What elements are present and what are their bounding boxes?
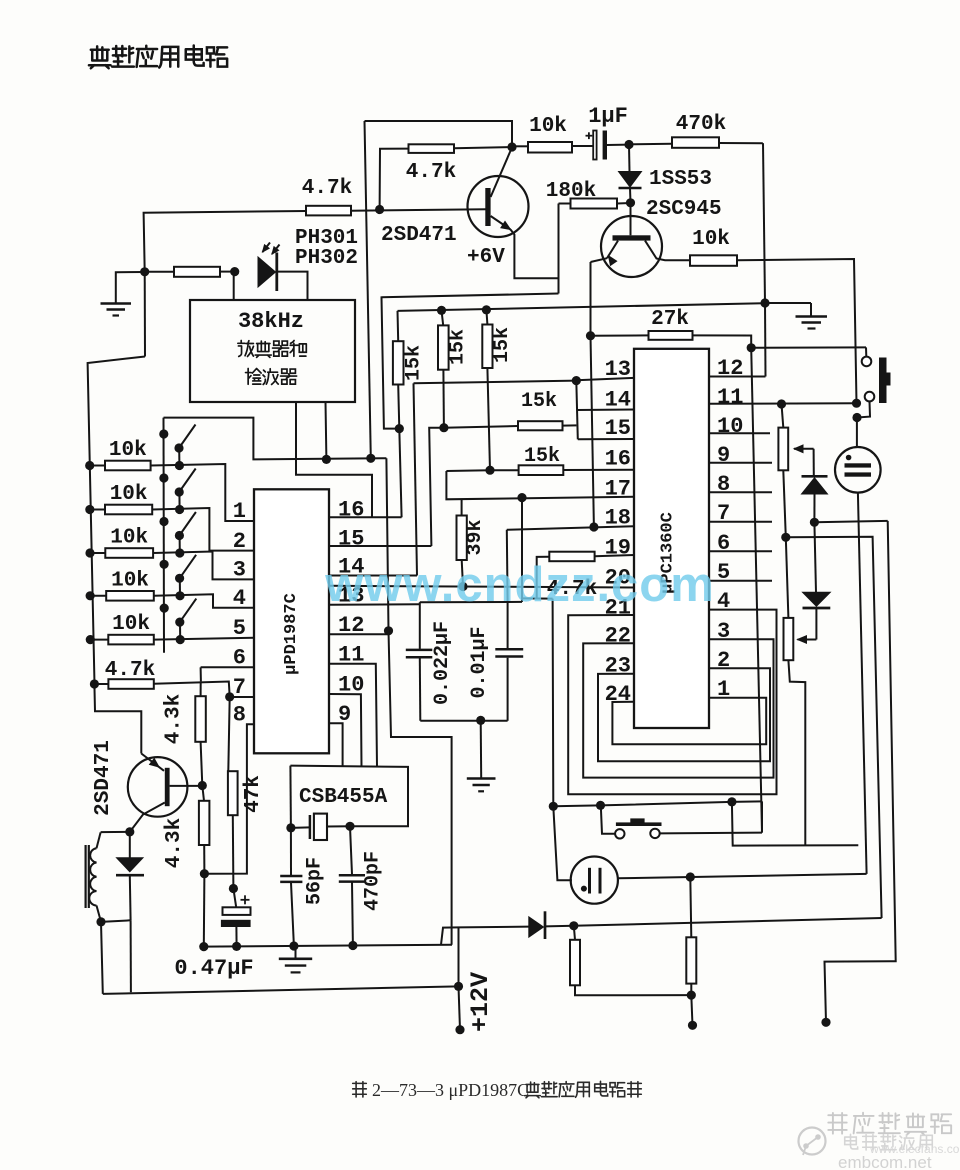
node cap box bottom	[476, 716, 485, 725]
wire pin15 stub uPD	[329, 545, 431, 547]
IC U2 uPC1360C	[634, 349, 709, 728]
node crystal right	[345, 822, 354, 831]
coil (transducer)	[84, 845, 86, 908]
diode (flyback)	[129, 832, 131, 858]
node key row 3 left	[85, 548, 94, 557]
svg-text:0.01μF: 0.01μF	[468, 626, 491, 698]
svg-text:2: 2	[233, 529, 246, 554]
svg-text:56pF: 56pF	[304, 857, 327, 905]
resistor 10k (top)	[528, 142, 572, 153]
svg-text:10k: 10k	[112, 613, 150, 636]
svg-text:3: 3	[233, 558, 246, 583]
diode (+12V supply)	[529, 917, 544, 937]
wire pin7 stub uPC	[709, 521, 772, 523]
wire cap box top edge	[420, 601, 522, 603]
svg-text:3: 3	[717, 619, 730, 644]
node 38kHz out2 / key wire	[322, 455, 331, 464]
wire bottom link	[553, 801, 762, 806]
pushbutton SW2	[601, 805, 615, 833]
node right hook branch	[727, 797, 736, 806]
node key row 4 contact	[175, 591, 184, 600]
svg-text:17: 17	[605, 477, 631, 502]
wire 470k vertical to pin12	[764, 303, 767, 377]
svg-text:470k: 470k	[676, 113, 726, 136]
wire pin15 stub uPC	[578, 438, 634, 440]
wire key row 2 to uPD pin 2	[152, 508, 254, 551]
wire +12V riser	[458, 927, 460, 986]
wire +6V to pin16 branch	[382, 294, 559, 429]
node crystal left	[286, 823, 295, 832]
trimmer resistor (upper right)	[782, 404, 784, 428]
wire diode bottom to bottom rail	[130, 920, 132, 992]
wire key row 3 to uPD pin 3	[153, 552, 254, 580]
diode 1SS53	[628, 145, 631, 172]
capacitor C 0.47uF electrolytic	[241, 899, 250, 901]
node 1uF/470k/1SS53	[624, 140, 633, 149]
wire left supply bus	[88, 357, 145, 685]
wire base Q1	[351, 209, 487, 211]
svg-text:14: 14	[605, 387, 631, 412]
node 39k/pin20 wire	[458, 582, 467, 591]
crystal element	[309, 815, 312, 839]
svg-text:embcom.net: embcom.net	[838, 1153, 932, 1170]
svg-text:15k: 15k	[447, 329, 470, 365]
node end stub right	[821, 1018, 830, 1027]
svg-text:18: 18	[605, 505, 631, 530]
wire bus 27k-left down to pin18	[591, 336, 594, 527]
wire +12V stub down	[459, 986, 461, 1029]
key switch S4	[160, 560, 169, 569]
wire 4.7k row to pins 6/7	[154, 682, 230, 697]
wire 470k right lead	[719, 142, 763, 144]
svg-text:16: 16	[605, 447, 631, 472]
wire 4.7k lead down	[380, 149, 409, 210]
node 470pF rail	[348, 941, 357, 950]
svg-text:38kHz: 38kHz	[238, 309, 304, 334]
svg-text:10k: 10k	[692, 228, 730, 251]
resonator X1 CSB455A box	[290, 766, 408, 827]
node pin11/10k	[852, 399, 861, 408]
svg-text:1SS53: 1SS53	[649, 168, 712, 191]
wire pin18 stub uPC	[507, 526, 634, 530]
node emitter/diode	[125, 827, 134, 836]
38kHz amplifier/detector block	[190, 300, 355, 402]
svg-text:1: 1	[233, 499, 246, 524]
node end stub (bias)	[688, 1021, 697, 1030]
wire right branch down to bottom left hook	[825, 521, 896, 1022]
svg-text:15: 15	[338, 527, 364, 552]
svg-text:10k: 10k	[110, 527, 148, 550]
node rail left	[199, 942, 208, 951]
wire Q2 emitter	[130, 803, 165, 832]
svg-text:27k: 27k	[651, 308, 689, 331]
node pin16 branch	[395, 424, 404, 433]
svg-text:13: 13	[605, 357, 631, 382]
svg-text:10k: 10k	[111, 569, 149, 592]
wire 38kHz out1 to pin16 uPD	[296, 402, 372, 517]
wire pin13 stub uPD to cap box corner	[329, 603, 420, 606]
resistor (bias right)	[686, 937, 696, 983]
wire 27k right lead	[693, 335, 752, 347]
node 47k / 0.47uF	[229, 884, 238, 893]
wire Q2 base to 4.3k node	[170, 785, 203, 787]
svg-text:1μF: 1μF	[588, 104, 628, 129]
svg-text:6: 6	[233, 645, 246, 670]
wire pin6 stub uPD	[201, 666, 254, 668]
node pin7 uPD	[225, 692, 234, 701]
wire PH anode to 38kHz block	[233, 272, 235, 300]
svg-text:15k: 15k	[521, 390, 557, 413]
node key row 5 left	[86, 635, 95, 644]
svg-text:15k: 15k	[491, 327, 514, 363]
wire pin16 stub uPC	[563, 469, 634, 471]
svg-text:2—73—3 μPD1987C: 2—73—3 μPD1987C	[372, 1080, 529, 1100]
wire vertical to pin15 uPC	[576, 381, 578, 440]
node end stub (+12V)	[455, 1025, 464, 1034]
node trimmer mid	[781, 533, 790, 542]
resistor 470k	[672, 137, 719, 148]
svg-text:5: 5	[233, 616, 246, 641]
wire pin13 stub uPC	[576, 378, 634, 380]
key switch S3	[159, 517, 168, 526]
wire pin13/14 uPC horizontal	[414, 381, 577, 384]
wire key row 4 to uPD pin 4	[154, 594, 254, 608]
wire pin17 uPC / 39k top	[446, 469, 490, 472]
svg-text:16: 16	[338, 498, 364, 523]
wire pin6 stub uPC	[709, 550, 772, 552]
svg-text:+12V: +12V	[466, 972, 495, 1032]
wire pin24 uPC to pin1 wrap	[612, 698, 766, 745]
node key row 5 contact	[176, 635, 185, 644]
wire 10k to C 1uF	[572, 145, 593, 147]
svg-text:10k: 10k	[110, 483, 148, 506]
wire ground rail bottom	[204, 945, 452, 947]
wire 27k node to switch SW1	[751, 346, 866, 348]
wire pin23 uPC to pin2 wrap	[598, 668, 770, 761]
wire node to mic branch	[786, 537, 882, 918]
svg-text:7: 7	[233, 675, 246, 700]
wire Q3 collector to 10k	[645, 241, 690, 261]
node key row 2 left	[85, 505, 94, 514]
node +12V riser	[454, 982, 463, 991]
svg-text:11: 11	[717, 385, 743, 410]
key switch S1	[159, 429, 168, 438]
wire pin8 stub uPC	[709, 491, 772, 493]
node left bus bottom	[549, 802, 558, 811]
wire pin21 uPC to pin4 wrap	[568, 610, 776, 795]
node key row 4 left	[86, 591, 95, 600]
wire top rail left vertical	[365, 121, 371, 458]
wire Q2 collector from 4.7k node	[94, 684, 141, 754]
wire emitter node to coil	[101, 831, 130, 833]
svg-text:2SD471: 2SD471	[381, 224, 457, 247]
node pin13 uPC	[572, 376, 581, 385]
node 1SS53/180k/base Q3	[626, 198, 635, 207]
svg-text:www.cndzz.com: www.cndzz.com	[324, 558, 715, 612]
wire node to 470k	[629, 143, 672, 146]
svg-text:10: 10	[717, 414, 743, 439]
wire cap box bottom edge	[420, 720, 507, 722]
resistor (bias left)	[574, 926, 575, 940]
svg-text:15k: 15k	[403, 345, 426, 381]
wire rail jog to +12V line	[441, 927, 459, 944]
wire bus down right of uPC1360C to SW2	[751, 348, 762, 833]
wire pin14 stub uPD	[329, 575, 417, 577]
wire Q1 emitter +6V rail	[511, 230, 559, 279]
node PH input left	[140, 267, 149, 276]
svg-text:4.3k: 4.3k	[163, 694, 186, 744]
wire pin11 stub uPC long	[709, 402, 857, 405]
node PH anode	[230, 267, 239, 276]
node 4.3k mid	[198, 781, 207, 790]
wire SW2 right riser	[761, 801, 763, 832]
node 15k B / 15k D	[439, 423, 448, 432]
wire 4.7k left lead	[144, 211, 306, 272]
svg-text:4.7k: 4.7k	[302, 177, 352, 200]
wire key row 5 to uPD pin 5	[154, 638, 254, 640]
key switch S2	[159, 473, 168, 482]
wire pin13 uPC link	[414, 383, 418, 575]
wire left vertical to bottom horizontal	[101, 922, 103, 994]
wire mic out	[618, 874, 867, 878]
wire to supply diode	[459, 926, 529, 929]
pushbutton SW1	[865, 347, 867, 356]
node pin17/cap box	[517, 493, 526, 502]
wire 4.3k node down to rail	[203, 874, 206, 947]
svg-text:4: 4	[233, 586, 246, 611]
wire electrolytic bottom to mic wire	[858, 493, 867, 874]
svg-text:1: 1	[717, 677, 730, 702]
title 典型应用电路	[89, 46, 111, 68]
wire trimmer lower bottom	[788, 660, 805, 845]
svg-text:μPD1987C: μPD1987C	[282, 593, 301, 675]
wire pin12 stub uPD	[329, 633, 389, 635]
wire 38kHz out2	[325, 402, 328, 459]
wire 15k A bottom to pin16 node	[398, 385, 399, 429]
ground (bottom rail)	[295, 946, 297, 958]
wire 15k C bottom	[487, 368, 490, 470]
trimmer resistor (lower right)	[786, 537, 789, 618]
svg-text:2SD471: 2SD471	[92, 740, 115, 816]
svg-text:2SC945: 2SC945	[646, 198, 722, 221]
ground (below cap box)	[480, 720, 483, 778]
svg-text:8: 8	[233, 703, 246, 728]
node 4.3k bottom / pin8 wire	[200, 869, 209, 878]
node collector 2SD471/10k	[507, 142, 516, 151]
wire 4.7k mid to pin19 uPC	[595, 555, 634, 556]
wire pin5 stub uPC	[709, 580, 772, 582]
node 4.7k row left	[90, 679, 99, 688]
node 56pF rail	[289, 941, 298, 950]
svg-text:10k: 10k	[529, 115, 567, 138]
node +12V junction	[569, 921, 578, 930]
svg-text:15: 15	[605, 416, 631, 441]
wire link to caps corner	[522, 597, 553, 599]
photodiode PH301/PH302	[258, 257, 276, 287]
key switch S5	[160, 604, 169, 613]
node 15k C / 15k E	[485, 466, 494, 475]
wire key bus vertical	[163, 418, 166, 653]
wire 4.7k to collector node	[454, 147, 512, 148]
node pin11/trimmer	[777, 399, 786, 408]
wire 10k down to pin11 node	[737, 259, 857, 403]
wire branch up to pin 6	[200, 667, 202, 681]
wire 1uF to node	[607, 144, 629, 146]
wire pin11 stub uPD to CSB455A	[329, 664, 377, 767]
wire 47k bottom	[232, 815, 235, 888]
wire node to right branch	[814, 521, 887, 522]
node key row 3 contact	[175, 548, 184, 557]
caption 图2-73-3 uPD1987C 典型应用电路图	[353, 1082, 367, 1097]
node key row 1 contact	[175, 461, 184, 470]
svg-text:4.7k: 4.7k	[406, 161, 456, 184]
svg-text:0.022μF: 0.022μF	[431, 621, 454, 705]
node 0.47uF rail	[232, 942, 241, 951]
node 27k left / Q3 emitter / bus	[586, 331, 595, 340]
wire pin18 uPC to cap box	[506, 530, 509, 602]
wire ground rail top right	[765, 302, 811, 304]
svg-text:CSB455A: CSB455A	[299, 786, 388, 809]
svg-text:4.3k: 4.3k	[163, 818, 186, 868]
wire pin7 stub uPD	[230, 696, 254, 698]
svg-text:22: 22	[605, 623, 631, 648]
wire 180k vertical	[558, 204, 560, 294]
wire top rail	[365, 121, 513, 147]
wire pin9 stub uPC	[709, 462, 772, 464]
svg-text:2: 2	[717, 648, 730, 673]
wire coil/diode bottom	[101, 920, 131, 922]
wire to pin15 uPD	[429, 428, 444, 546]
wire pin8 uPD down to 4.3k node	[204, 724, 254, 873]
node 470k/ground rail	[760, 298, 769, 307]
wire PH cathode to 38kHz block	[278, 272, 308, 300]
wire to pin12 uPD and 0.01uF ground branch	[386, 458, 451, 945]
wire +12V to right side	[574, 918, 882, 926]
wire 15k B bottom	[442, 370, 445, 428]
microphone (condenser) symbol	[571, 857, 618, 904]
svg-text:9: 9	[717, 443, 730, 468]
wire PH node down left	[144, 272, 146, 357]
diode D (varicap upper)	[813, 449, 815, 475]
wire stub down	[691, 995, 692, 1025]
electrolytic capacitor (in circle)	[856, 418, 858, 448]
diode D (varicap lower)	[814, 522, 816, 592]
svg-text:PH302: PH302	[295, 247, 358, 270]
IC U1 uPD1987C	[254, 489, 329, 753]
svg-text:+6V: +6V	[467, 246, 505, 269]
wire node to pin16 stub	[399, 429, 401, 518]
wire pin10 stub uPC	[709, 432, 770, 434]
node bias bottom	[687, 991, 696, 1000]
wire bias bottom	[575, 985, 691, 995]
svg-text:12: 12	[717, 356, 743, 381]
capacitor C 1uF electrolytic	[586, 135, 593, 137]
wire pin22 uPC to pin3 wrap	[583, 639, 773, 777]
wire pin9 stub uPD to CSB455A	[329, 723, 343, 766]
wire 4.7k mid left lead	[537, 557, 550, 599]
wire hook down	[732, 802, 858, 846]
resistor (PH input)	[174, 267, 220, 277]
svg-text:24: 24	[605, 682, 631, 707]
node 27k/SW1	[747, 343, 756, 352]
node top rail vertical joins	[366, 454, 375, 463]
node coil bottom	[96, 917, 105, 926]
wire 27k left lead	[591, 334, 649, 336]
wire cap box top right link	[521, 498, 523, 602]
wire key matrix top link	[164, 418, 387, 460]
svg-text:0.47μF: 0.47μF	[174, 956, 253, 981]
wire to ground (left)	[116, 272, 145, 303]
wire 39k bottom	[462, 560, 463, 587]
wire 15k top rail	[398, 303, 767, 311]
svg-text:10k: 10k	[109, 439, 147, 462]
wire trimmer bottom	[783, 470, 786, 537]
wire node to R 10k	[512, 145, 528, 147]
node key row 2 contact	[175, 505, 184, 514]
wire Q3 emitter down to 27k node	[590, 262, 592, 336]
node mic out / resistor	[686, 872, 695, 881]
svg-text:47k: 47k	[242, 775, 265, 813]
ground (left)	[101, 302, 132, 305]
node pin18 uPC	[589, 522, 598, 531]
wire pin12 stub uPC	[709, 376, 766, 378]
wire key row 1 to uPD pin 1	[151, 464, 254, 521]
wire pin14 stub uPC	[577, 409, 634, 412]
node SW2 branch	[596, 801, 605, 810]
node pin12 uPD	[384, 626, 393, 635]
node key row 1 left	[85, 461, 94, 470]
node diode junction	[810, 518, 819, 527]
wire 470k down to ground rail	[763, 143, 765, 303]
svg-text:4: 4	[717, 589, 730, 614]
logo watermark corner	[799, 1128, 826, 1155]
wire left bus down to mic	[553, 599, 572, 881]
node base Q1	[375, 205, 384, 214]
wire SW2 right lead	[660, 832, 762, 835]
wire pin16 stub uPD	[329, 516, 402, 518]
svg-text:19: 19	[605, 535, 631, 560]
ground (top right)	[810, 303, 812, 316]
wire bottom horizontal +12V feed	[103, 986, 459, 994]
wire pin10 stub uPD to CSB455A	[329, 694, 362, 767]
wire pin20 uPC long horizontal	[329, 586, 634, 588]
